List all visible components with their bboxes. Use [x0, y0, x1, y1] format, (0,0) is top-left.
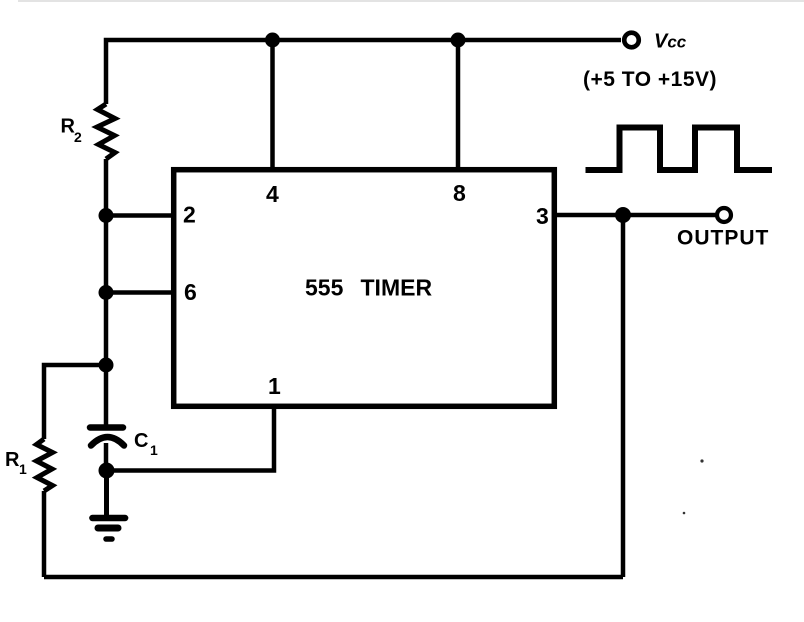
wire bottom rail — [44, 575, 623, 580]
wire left rail lower node to C1 top — [104, 365, 109, 426]
terminal Vcc — [624, 33, 639, 48]
wire pin 8 — [456, 40, 461, 167]
scan artifact top edge line — [18, 0, 804, 2]
svg-text:2: 2 — [183, 202, 196, 228]
svg-text:TIMER: TIMER — [361, 275, 433, 301]
wire pin 2 — [106, 213, 172, 218]
resistor R2 — [97, 104, 115, 159]
wire left rail R2 to pin2 node — [104, 159, 109, 216]
wire ground stem — [104, 471, 109, 516]
svg-text:6: 6 — [184, 279, 197, 305]
speck artifact 1 — [700, 459, 703, 462]
speck artifact 2 — [683, 512, 686, 515]
svg-text:8: 8 — [453, 180, 466, 206]
wire top rail Vcc — [106, 40, 621, 104]
ground — [92, 515, 125, 522]
wire R1 bottom to bottom rail — [42, 491, 47, 577]
node junction left lower — [99, 358, 114, 373]
wire pin 4 — [270, 40, 275, 167]
resistor R1 — [37, 439, 53, 491]
wire left rail pin2 node to pin6 node — [104, 216, 109, 293]
capacitor C1 bottom plate — [91, 437, 124, 446]
wire pin 6 — [106, 290, 172, 295]
wire left rail pin6 node to lower node — [104, 293, 109, 366]
op-amp U1 555 timer box — [174, 170, 555, 407]
wire pin 3 to output — [557, 213, 716, 218]
svg-text:(+5 TO +15V): (+5 TO +15V) — [583, 68, 717, 91]
square wave output waveform — [586, 128, 773, 171]
terminal OUTPUT — [717, 208, 731, 222]
svg-text:3: 3 — [536, 203, 549, 229]
node junction pin 8 top rail — [451, 33, 466, 48]
svg-text:C: C — [134, 430, 148, 452]
node junction pin 4 top rail — [265, 33, 280, 48]
svg-text:2: 2 — [74, 129, 82, 145]
svg-text:4: 4 — [266, 181, 279, 207]
node junction output — [615, 207, 631, 223]
svg-text:1: 1 — [268, 373, 281, 399]
svg-text:OUTPUT: OUTPUT — [677, 227, 769, 250]
svg-text:555: 555 — [305, 275, 344, 301]
wire C1 bottom to ground node — [104, 443, 109, 471]
svg-text:1: 1 — [150, 442, 158, 458]
wire pin 1 — [107, 408, 275, 471]
wire lower node to R1 branch — [44, 365, 106, 439]
node junction pin 2 — [99, 208, 114, 223]
capacitor C1 top plate — [90, 424, 123, 431]
wire output vertical down — [621, 215, 626, 577]
node junction C1 ground — [99, 463, 115, 479]
node junction pin 6 — [99, 285, 114, 300]
svg-text:1: 1 — [19, 461, 27, 477]
svg-text:R: R — [5, 449, 20, 471]
svg-text:Vcc: Vcc — [654, 31, 687, 53]
